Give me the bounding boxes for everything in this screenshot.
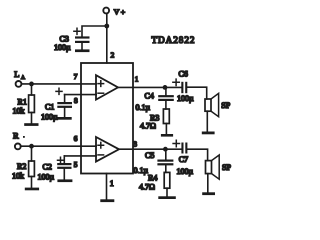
svg-text:100µ: 100µ — [41, 113, 58, 122]
svg-text:1: 1 — [110, 179, 114, 188]
svg-text:C4: C4 — [145, 92, 154, 101]
capacitor C3 — [54, 28, 90, 52]
svg-text:SP: SP — [221, 101, 230, 110]
svg-text:100µ: 100µ — [177, 167, 194, 176]
ground (C3) — [75, 49, 90, 52]
wire L input to op-amp + (pin 7) — [21, 83, 96, 85]
wire junction left to C3 — [82, 26, 107, 37]
node supply junction — [104, 24, 109, 29]
ground (C1) — [57, 117, 71, 120]
svg-text:R2: R2 — [17, 162, 26, 171]
svg-text:SP: SP — [222, 163, 231, 172]
ground (R3) — [161, 134, 173, 137]
svg-text:10k: 10k — [13, 107, 25, 116]
wire C6 to speaker 1 — [187, 87, 206, 99]
wire R input to op-amp + (pin 6) — [21, 145, 97, 147]
node L input junction — [29, 82, 34, 87]
ground (C2) — [57, 179, 72, 182]
svg-text:C6: C6 — [179, 69, 188, 78]
svg-text:100µ: 100µ — [177, 94, 194, 103]
ground (speaker 1) — [202, 111, 215, 134]
svg-text:7: 7 — [74, 72, 78, 81]
resistor R4 — [139, 172, 170, 196]
ground (pin 4) — [100, 199, 114, 202]
svg-text:0.1µ: 0.1µ — [136, 103, 151, 112]
input terminal R — [13, 131, 25, 150]
capacitor C6 — [173, 69, 194, 103]
title TDA2822 — [152, 35, 196, 45]
op-amp A1 (top half) — [96, 75, 118, 99]
svg-text:1: 1 — [135, 75, 139, 84]
svg-text:2: 2 — [111, 51, 115, 60]
pin 5 label — [74, 160, 78, 169]
op-amp A2 (bottom half) — [96, 137, 119, 162]
ground (R1) — [24, 123, 38, 126]
wire C1 to op-amp - (pin 8) — [65, 95, 97, 103]
svg-text:4.7Ω: 4.7Ω — [139, 183, 155, 192]
wire output 1 to C6 — [118, 86, 181, 88]
capacitor C7 — [173, 140, 193, 176]
svg-text:0.1µ: 0.1µ — [134, 166, 149, 175]
svg-text:C7: C7 — [179, 155, 188, 164]
svg-text:TDA2822: TDA2822 — [152, 35, 196, 45]
pin 8 label — [74, 96, 78, 105]
wire output 2 to C7 — [119, 148, 181, 150]
speaker SP (channel 1) — [205, 93, 231, 116]
ground (R2) — [25, 188, 39, 191]
ground (R4) — [158, 196, 176, 199]
node output 2 junction — [163, 147, 168, 152]
capacitor C1 — [41, 88, 72, 121]
pin 1 label — [135, 75, 139, 84]
svg-text:L: L — [14, 69, 19, 79]
capacitor C4 — [136, 87, 174, 111]
wire C7 to speaker 2 — [187, 149, 207, 160]
svg-text:R1: R1 — [18, 98, 27, 107]
svg-text:100µ: 100µ — [54, 43, 71, 52]
svg-text:5: 5 — [74, 160, 78, 169]
svg-text:R: R — [13, 131, 19, 141]
node output 1 junction — [163, 85, 168, 90]
pin 3 label — [133, 140, 137, 149]
capacitor C5 — [134, 149, 174, 175]
resistor R3 — [140, 109, 169, 134]
svg-text:10k: 10k — [12, 172, 24, 181]
svg-text:8: 8 — [74, 96, 78, 105]
pin 4 wire to ground — [107, 174, 114, 200]
svg-text:C5: C5 — [145, 151, 154, 160]
pin 6 label — [74, 134, 78, 143]
svg-text:100µ: 100µ — [38, 173, 55, 182]
input terminal L — [14, 69, 25, 87]
svg-text:+: + — [121, 8, 126, 17]
pin 2 label — [111, 51, 115, 60]
svg-text:3: 3 — [133, 140, 137, 149]
svg-text:C2: C2 — [43, 163, 52, 172]
svg-text:R4: R4 — [148, 173, 157, 182]
capacitor C2 — [38, 157, 72, 181]
power terminal V+ — [103, 7, 126, 16]
resistor R1 — [13, 84, 35, 123]
pin 7 label — [74, 72, 78, 81]
svg-text:A: A — [21, 75, 25, 81]
resistor R2 — [12, 146, 34, 187]
speaker SP (channel 2) — [206, 155, 232, 179]
wire V+ stem down to pin 2 (vertical, through junction) — [106, 14, 108, 63]
wire C2 to op-amp - (pin 5) — [64, 156, 96, 163]
node R input junction — [29, 144, 34, 149]
IC U1 TDA2822 outline — [81, 63, 133, 174]
svg-text:6: 6 — [74, 134, 78, 143]
svg-text:V: V — [114, 7, 120, 16]
ground (speaker 2) — [202, 174, 215, 196]
svg-text:4.7Ω: 4.7Ω — [140, 122, 156, 131]
svg-text:C1: C1 — [45, 102, 54, 111]
